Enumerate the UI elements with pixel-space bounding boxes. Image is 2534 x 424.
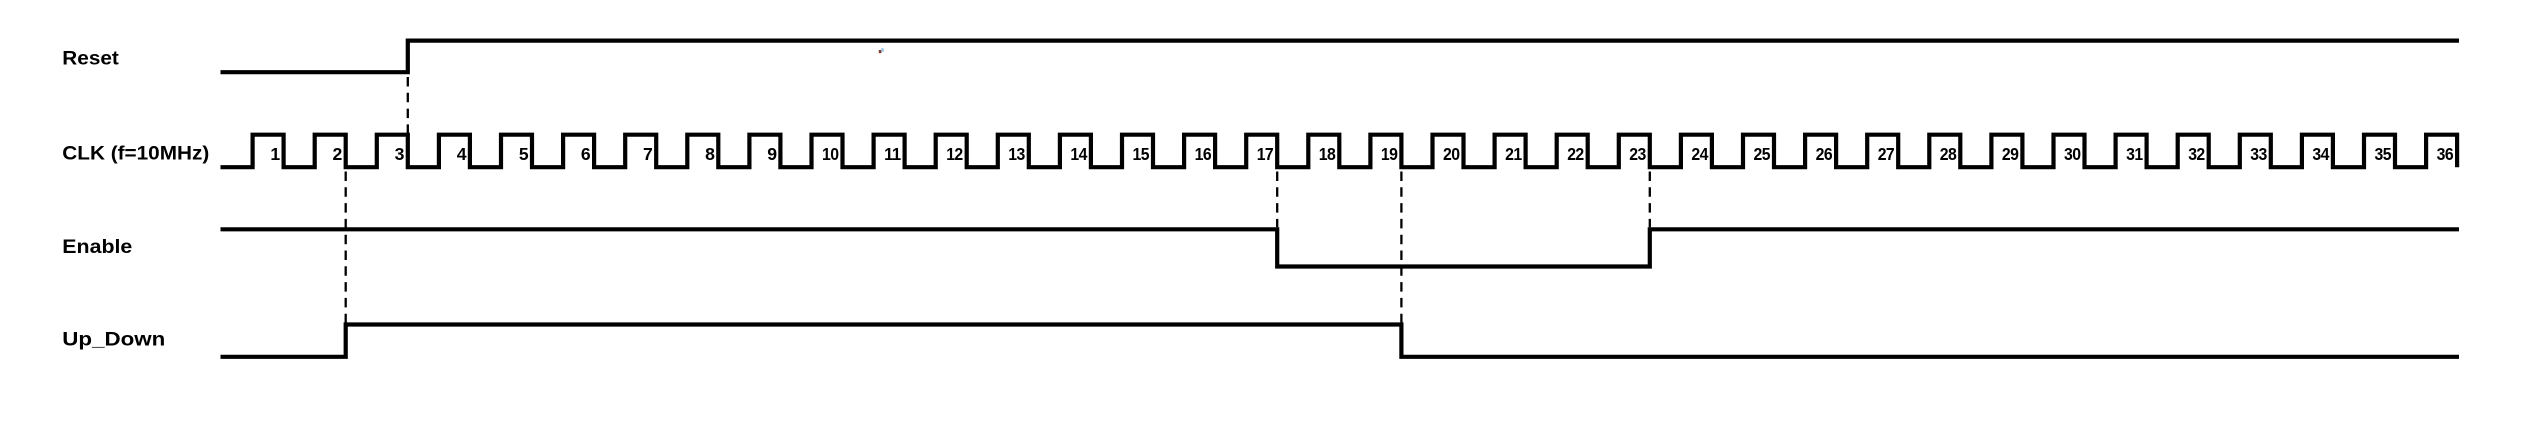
svg-text:10: 10: [822, 144, 839, 164]
Reset waveform: low then high at clock edge 3: [221, 41, 2460, 73]
dashed marker at Enable falling edge (clock pulse 17): [1276, 172, 1278, 228]
svg-text:34: 34: [2312, 144, 2329, 164]
svg-text:30: 30: [2064, 144, 2081, 164]
svg-text:12: 12: [946, 144, 963, 164]
svg-text:32: 32: [2188, 144, 2205, 164]
svg-text:18: 18: [1319, 144, 1336, 164]
svg-text:6: 6: [581, 144, 591, 164]
svg-text:3: 3: [395, 144, 405, 164]
svg-text:11: 11: [884, 144, 901, 164]
Enable waveform: high, low between clock 17 and 23, high: [221, 229, 2460, 266]
svg-text:19: 19: [1381, 144, 1398, 164]
svg-text:Up_Down: Up_Down: [62, 330, 165, 351]
svg-text:7: 7: [643, 144, 653, 164]
svg-text:17: 17: [1257, 144, 1274, 164]
svg-text:1: 1: [270, 144, 280, 164]
CLK (f=10MHz) waveform: 36 pulses: [221, 135, 2458, 168]
svg-text:2: 2: [333, 144, 343, 164]
svg-text:5: 5: [519, 144, 529, 164]
svg-text:Enable: Enable: [62, 237, 132, 258]
dashed marker at Up_Down rising edge (clock pulse 2): [345, 172, 347, 323]
svg-text:15: 15: [1133, 144, 1150, 164]
svg-text:26: 26: [1816, 144, 1833, 164]
svg-text:Reset: Reset: [62, 48, 119, 69]
svg-text:CLK (f=10MHz): CLK (f=10MHz): [62, 144, 209, 165]
dashed marker at Enable rising edge (clock pulse 23): [1649, 172, 1651, 228]
svg-text:14: 14: [1070, 144, 1087, 164]
svg-text:35: 35: [2375, 144, 2392, 164]
svg-text:20: 20: [1443, 144, 1460, 164]
svg-text:28: 28: [1940, 144, 1957, 164]
svg-text:21: 21: [1505, 144, 1522, 164]
svg-text:23: 23: [1629, 144, 1646, 164]
svg-text:9: 9: [767, 144, 777, 164]
svg-text:4: 4: [457, 144, 467, 164]
svg-text:27: 27: [1878, 144, 1895, 164]
svg-text:16: 16: [1195, 144, 1212, 164]
dashed marker at Reset rising edge (clock pulse 3): [407, 77, 409, 134]
svg-text:25: 25: [1754, 144, 1771, 164]
dashed marker at Up_Down falling edge (clock pulse 19): [1400, 172, 1402, 355]
svg-text:29: 29: [2002, 144, 2019, 164]
svg-text:22: 22: [1567, 144, 1584, 164]
svg-text:13: 13: [1008, 144, 1025, 164]
svg-text:24: 24: [1691, 144, 1708, 164]
Up_Down waveform: low, high between clock 2 and 19, low: [221, 325, 2460, 357]
svg-text:33: 33: [2250, 144, 2267, 164]
svg-text:31: 31: [2126, 144, 2143, 164]
svg-text:36: 36: [2437, 144, 2454, 164]
tiny stray cursor artifact below Reset high line: [879, 50, 882, 53]
svg-text:8: 8: [705, 144, 715, 164]
